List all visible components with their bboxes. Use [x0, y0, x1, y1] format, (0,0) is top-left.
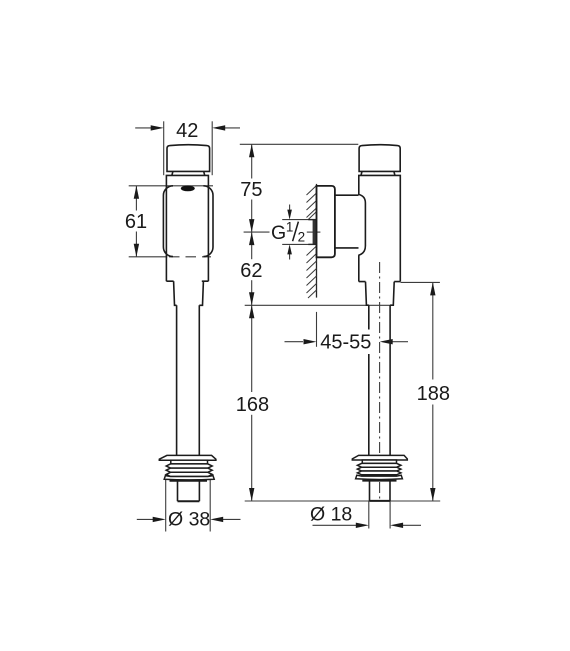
svg-text:61: 61	[125, 211, 147, 233]
svg-text:45-55: 45-55	[320, 332, 371, 354]
svg-text:Ø 38: Ø 38	[168, 509, 210, 531]
svg-text:1: 1	[286, 219, 294, 234]
svg-text:Ø 18: Ø 18	[310, 504, 352, 526]
svg-text:62: 62	[240, 260, 262, 282]
svg-text:188: 188	[417, 383, 450, 405]
svg-text:42: 42	[176, 120, 198, 142]
svg-text:2: 2	[298, 230, 306, 245]
svg-text:G: G	[271, 222, 286, 244]
svg-text:168: 168	[236, 394, 269, 416]
svg-text:75: 75	[240, 179, 262, 201]
